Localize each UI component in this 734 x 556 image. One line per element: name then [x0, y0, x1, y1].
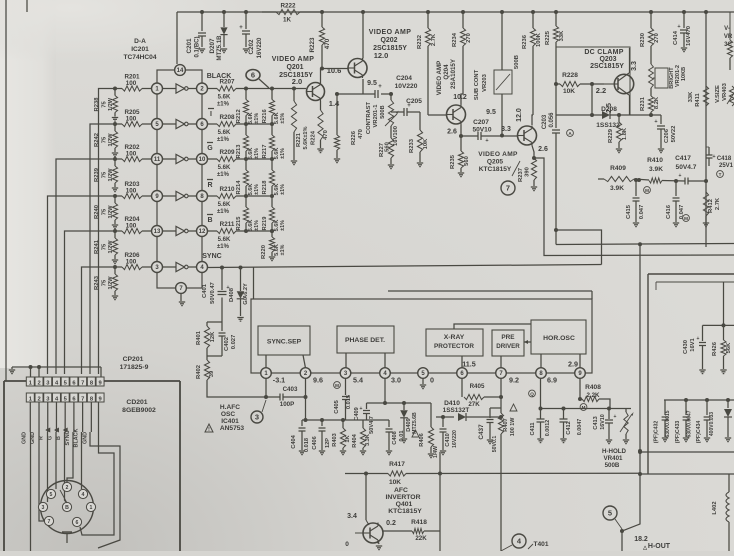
capacitor C434 [696, 400, 715, 443]
svg-text:L402: L402 [712, 501, 718, 514]
callout 7 [501, 181, 515, 195]
IC IC401 box [251, 299, 592, 373]
svg-text:100K: 100K [536, 32, 542, 47]
node junction r [704, 179, 708, 183]
svg-text:6.9: 6.9 [547, 376, 557, 385]
svg-text:3: 3 [42, 505, 45, 511]
svg-text:10.2: 10.2 [453, 94, 467, 101]
svg-text:D408: D408 [229, 287, 235, 302]
wire CD201 pin1 lead [29, 402, 31, 432]
resistor R238 [94, 89, 118, 117]
svg-text:+: + [378, 84, 382, 90]
svg-text:171825-9: 171825-9 [120, 364, 149, 371]
resistor R203 [115, 181, 152, 199]
diode D right [724, 400, 732, 437]
svg-text:C413: C413 [593, 416, 599, 429]
svg-text:560: 560 [464, 156, 470, 166]
capacitor C408 [386, 420, 406, 450]
svg-text:±1%: ±1% [217, 209, 230, 215]
connector arrow [45, 428, 50, 433]
diode D208 [596, 106, 620, 129]
mark M410 [644, 187, 651, 194]
svg-text:56K: 56K [726, 342, 732, 353]
svg-text:INVERTOR: INVERTOR [386, 494, 421, 501]
svg-text:1/2W: 1/2W [108, 205, 114, 219]
svg-text:2.7K: 2.7K [431, 33, 437, 46]
CP201 pin 1 [26, 377, 34, 386]
svg-text:R411: R411 [695, 92, 701, 106]
label VIDEO AMP Q202 [369, 29, 412, 60]
svg-text:5.4: 5.4 [353, 376, 363, 385]
label 2.5 [606, 103, 613, 113]
wire pin4 drop [384, 379, 386, 404]
svg-text:±1%: ±1% [280, 184, 286, 195]
svg-text:9.6: 9.6 [313, 376, 323, 385]
svg-text:3.0: 3.0 [391, 376, 401, 385]
svg-text:VR: VR [724, 34, 733, 40]
svg-text:33K: 33K [559, 30, 565, 41]
ground [340, 451, 346, 455]
capacitor C433 [675, 400, 693, 443]
ground [112, 118, 118, 122]
svg-text:R219: R219 [262, 216, 268, 231]
svg-text:T401: T401 [533, 541, 548, 548]
label I-bar [208, 109, 214, 119]
svg-text:R230: R230 [640, 33, 646, 47]
resistor R403 [332, 418, 351, 450]
wire CD201 pin7 lead [82, 402, 84, 432]
svg-text:8.2K: 8.2K [654, 96, 660, 109]
svg-text:R418: R418 [411, 519, 427, 526]
svg-text:+: + [712, 154, 715, 160]
svg-text:500B: 500B [514, 55, 520, 69]
svg-text:3.3: 3.3 [631, 61, 638, 71]
label voltage 11.5 [462, 360, 476, 369]
wire CD201 pin6 lead [73, 402, 75, 432]
svg-text:5: 5 [608, 509, 612, 518]
capacitor C418 [706, 147, 734, 169]
svg-text:27K: 27K [468, 401, 480, 408]
svg-text:100: 100 [126, 116, 137, 123]
svg-text:GND: GND [21, 432, 27, 444]
svg-text:7: 7 [81, 380, 84, 386]
label voltage 2.9 [568, 360, 578, 369]
svg-text:±1%: ±1% [280, 113, 286, 124]
wire Q202 collector [361, 10, 365, 59]
svg-text:R232: R232 [417, 35, 423, 49]
inverter U1 row pin5-pin6 [163, 119, 197, 128]
resistor R406 [419, 403, 439, 458]
label voltage -3.1 [273, 376, 285, 385]
pin 11 [152, 154, 163, 165]
wire R417 row [345, 461, 640, 486]
CD201 pin 7 [79, 393, 87, 402]
DIN pin 4 [78, 489, 87, 498]
svg-text:100: 100 [126, 259, 137, 266]
DIN connector CD201 shell [41, 481, 94, 534]
svg-text:R221: R221 [296, 132, 302, 147]
svg-text:5.6K±1%: 5.6K±1% [303, 126, 309, 149]
svg-text:M: M [684, 216, 688, 221]
resistor R224 [311, 101, 330, 148]
svg-text:C402: C402 [224, 337, 230, 351]
resistor R243 [94, 267, 118, 295]
inverter U1 row pin13-pin12 [163, 226, 197, 235]
H-HOLD pot VR401 [602, 409, 634, 470]
svg-text:3.4: 3.4 [347, 513, 357, 520]
capacitor C410 [440, 417, 459, 450]
svg-text:SUB CONT: SUB CONT [474, 69, 480, 100]
svg-text:2: 2 [66, 485, 69, 491]
resistor R205 [115, 109, 152, 127]
svg-text:100P: 100P [280, 401, 294, 408]
svg-text:R214: R214 [236, 180, 242, 195]
CD201 pin 6 [70, 393, 78, 402]
svg-text:±1%: ±1% [217, 172, 230, 178]
pin 8 IC401 [536, 368, 547, 379]
svg-text:50V0.1: 50V0.1 [492, 436, 498, 453]
svg-text:R405: R405 [470, 383, 485, 390]
svg-text:50V4.7: 50V4.7 [369, 416, 375, 434]
svg-text:1SS132: 1SS132 [596, 122, 620, 129]
label CD201 [122, 399, 156, 414]
svg-text:C412: C412 [566, 421, 572, 434]
resistor R222 [262, 3, 320, 24]
CD201 pin 3 [44, 393, 52, 402]
svg-text:C417: C417 [675, 155, 691, 162]
resistor R412 [703, 192, 721, 222]
svg-text:R208: R208 [219, 114, 235, 121]
resistor R220 [261, 229, 286, 259]
pin 3 IC401 [340, 368, 351, 379]
capacitor C204 [375, 75, 418, 98]
svg-text:630V0.0015: 630V0.0015 [665, 410, 671, 437]
label R407 [503, 404, 517, 436]
svg-text:C409: C409 [354, 407, 360, 420]
resistor R232 [417, 10, 437, 115]
svg-text:2SA1015Y: 2SA1015Y [450, 58, 457, 89]
wire right lower line [638, 450, 734, 454]
svg-text:VR403: VR403 [722, 82, 728, 101]
svg-text:D207: D207 [209, 38, 216, 54]
svg-text:G/A6.2Y: G/A6.2Y [243, 283, 249, 305]
capacitor C413 [593, 409, 617, 440]
ground [487, 440, 493, 444]
svg-text:H.AFC: H.AFC [220, 404, 240, 411]
svg-text:G: G [47, 436, 53, 440]
diode D410 [443, 400, 501, 421]
svg-text:100: 100 [126, 80, 137, 87]
wire matrix row [244, 87, 274, 91]
label R-bar [207, 180, 213, 190]
ground [725, 438, 731, 442]
wire subblock stubs [266, 353, 580, 368]
label B-bar [207, 215, 213, 225]
ground [9, 370, 15, 374]
capacitor C415 [626, 178, 645, 222]
wire din route 7 [81, 432, 83, 489]
svg-text:0.2: 0.2 [386, 520, 396, 527]
svg-text:VIDEO AMP: VIDEO AMP [478, 151, 518, 158]
diode D408 [229, 266, 249, 317]
resistor R217 [262, 124, 286, 159]
ground [662, 438, 668, 442]
svg-text:(PF)C434: (PF)C434 [696, 421, 702, 444]
wire din route 8 [90, 432, 120, 548]
resistor R230 [640, 10, 660, 64]
svg-text:Q201: Q201 [286, 64, 303, 71]
svg-text:±1%: ±1% [217, 102, 230, 108]
svg-text:V-: V- [724, 26, 730, 32]
wire c410 drop [439, 452, 441, 551]
wire matrix row [244, 157, 274, 161]
DIN bottom stub [66, 534, 68, 543]
DIN pin B [62, 502, 71, 511]
resistor R228 [554, 72, 604, 95]
resistor R221 [291, 89, 309, 161]
connector arrow [54, 428, 59, 433]
svg-text:7: 7 [506, 184, 510, 193]
DIN pin 1 [86, 502, 95, 511]
svg-text:75: 75 [102, 171, 108, 178]
svg-text:6: 6 [76, 520, 79, 526]
label voltage 5.4 [353, 376, 363, 385]
svg-text:R226: R226 [351, 130, 357, 145]
resistor R233 [409, 112, 429, 162]
wire Q204 base [428, 114, 447, 116]
svg-text:R220: R220 [261, 245, 267, 259]
capacitor C437 [478, 408, 501, 452]
capacitor C202 [239, 10, 263, 58]
node junction [113, 265, 117, 269]
contrast pot VR201-1 [366, 92, 399, 138]
ground [319, 451, 325, 455]
svg-text:11.5: 11.5 [462, 360, 476, 369]
label 2.6 q204 [447, 129, 457, 136]
ground [376, 541, 382, 550]
svg-text:±1%: ±1% [254, 113, 260, 124]
capacitor C205 [391, 98, 422, 146]
svg-text:75: 75 [102, 136, 108, 143]
wire row to connector bus [90, 124, 115, 374]
svg-text:13: 13 [154, 229, 161, 235]
inverter U1 row pin9-pin8 [163, 191, 197, 200]
inductor L402 [712, 474, 729, 551]
svg-text:Q: Q [530, 391, 534, 396]
ground [616, 149, 622, 153]
svg-text:IC401: IC401 [221, 418, 239, 425]
wire d410 line [436, 415, 454, 419]
resistor edge top [727, 12, 732, 70]
ground [673, 223, 679, 227]
resistor R223 [309, 10, 331, 68]
wire din route 2 [39, 432, 44, 521]
wire pin7 drop [498, 379, 503, 552]
CD201 pin 4 [52, 393, 60, 402]
svg-text:±1%: ±1% [217, 244, 230, 250]
wire base drop [591, 84, 593, 115]
svg-text:PHASE DET.: PHASE DET. [345, 337, 385, 344]
svg-text:1K: 1K [283, 17, 292, 24]
svg-text:R403: R403 [332, 433, 338, 446]
svg-text:25V1: 25V1 [719, 163, 734, 169]
V.SIZE pot VR403 [715, 82, 734, 106]
resistor R234 [452, 10, 472, 105]
svg-text:C406: C406 [312, 436, 318, 449]
callout 3 [251, 400, 266, 423]
svg-text:C203: C203 [542, 114, 548, 129]
resistor R231 [640, 88, 660, 115]
svg-text:75: 75 [102, 243, 108, 250]
svg-text:D-A: D-A [134, 38, 146, 45]
pin 9 IC401 [575, 368, 586, 379]
label VIDEO AMP Q201 [272, 56, 315, 79]
wire sync riser [554, 228, 602, 265]
label 9.5 left [367, 80, 377, 87]
svg-text:16V220: 16V220 [257, 37, 263, 58]
svg-text:±1%: ±1% [280, 148, 286, 159]
label 9.5 r [486, 109, 496, 116]
svg-text:M: M [335, 383, 339, 388]
svg-text:5.6K: 5.6K [218, 130, 231, 136]
mark M416 [683, 215, 690, 222]
svg-text:DC CLAMP: DC CLAMP [584, 49, 623, 56]
svg-text:1/2W: 1/2W [108, 97, 114, 111]
svg-text:Q203: Q203 [599, 56, 616, 63]
svg-text:1/4W: 1/4W [433, 446, 439, 458]
svg-text:R216: R216 [262, 109, 268, 124]
svg-text:(PF)C432: (PF)C432 [654, 421, 660, 444]
svg-text:KTC1815Y: KTC1815Y [479, 166, 512, 173]
wire CD201 pin8 lead [90, 402, 92, 432]
svg-text:0.027: 0.027 [231, 335, 237, 350]
CP201 pin 4 [52, 377, 60, 386]
resistor R410 [647, 157, 685, 183]
wire din route 9 [80, 402, 114, 535]
inverter U1 row pin3-pin4 [163, 262, 197, 271]
svg-text:470: 470 [324, 38, 331, 49]
resistor R213 [236, 124, 260, 159]
label IC401 [220, 404, 245, 432]
resistor R209 [208, 149, 247, 178]
wire right rail drop [704, 10, 708, 247]
svg-text:0.047: 0.047 [639, 205, 645, 220]
svg-text:PROTECTOR: PROTECTOR [434, 343, 474, 350]
capacitor C412 [560, 409, 584, 439]
wire CD201 pin4 lead [55, 402, 57, 432]
svg-text:5.6K: 5.6K [218, 237, 231, 243]
label DC CLAMP [584, 49, 624, 70]
svg-text:BLACK: BLACK [207, 73, 232, 80]
wire matrix row [244, 122, 274, 126]
wire row1 to Q201 base [272, 87, 306, 91]
block PRE DRIVER [492, 330, 524, 356]
svg-text:2.9: 2.9 [568, 360, 578, 369]
svg-text:0.056: 0.056 [549, 112, 555, 128]
svg-text:Q401: Q401 [396, 501, 413, 508]
svg-text:±1%: ±1% [254, 148, 260, 159]
svg-text:R236: R236 [522, 34, 528, 49]
svg-text:10K: 10K [389, 479, 401, 486]
svg-text:R212: R212 [236, 109, 242, 123]
svg-text:C437: C437 [478, 424, 485, 440]
wire video out line [533, 158, 734, 256]
svg-text:Q205: Q205 [487, 159, 503, 166]
svg-text:5.6K: 5.6K [218, 165, 231, 171]
CD201 pin 9 [96, 393, 104, 402]
svg-text:X-RAY: X-RAY [444, 334, 465, 341]
label R411 33K [688, 91, 694, 102]
ground [269, 257, 275, 261]
transistor Q204 [447, 105, 466, 125]
resistor R207 [208, 79, 247, 108]
label 3.3 q203 [631, 61, 638, 71]
callout 6 [246, 70, 269, 89]
svg-text:5: 5 [50, 492, 53, 498]
CP201 pin 9 [96, 377, 104, 386]
ground [386, 451, 392, 455]
ground [683, 438, 689, 442]
wire CD201 pin5 lead [64, 402, 66, 432]
capacitor C405 [334, 379, 352, 421]
label B [56, 436, 62, 440]
ground [237, 318, 243, 322]
wire R426 riser [723, 282, 725, 325]
svg-text:R210: R210 [219, 186, 235, 193]
svg-text:R213: R213 [236, 144, 242, 159]
label VIDEO AMP Q204 [436, 58, 457, 95]
svg-text:R412: R412 [708, 199, 714, 213]
ground [221, 49, 227, 53]
svg-text:75: 75 [102, 101, 108, 108]
wire row to connector bus [65, 231, 116, 374]
svg-text:VIDEO AMP: VIDEO AMP [436, 61, 443, 96]
IC IC201 box [157, 70, 202, 288]
mark A203 [567, 130, 574, 137]
wire row to connector bus [82, 267, 116, 374]
svg-text:50V0.47: 50V0.47 [210, 282, 216, 304]
ground [633, 223, 639, 227]
svg-text:VIDEO AMP: VIDEO AMP [272, 56, 315, 63]
capacitor C414 [673, 10, 692, 47]
ground [623, 440, 629, 444]
svg-text:C205: C205 [406, 98, 422, 105]
svg-text:12K: 12K [210, 331, 216, 342]
right section box [648, 274, 734, 474]
label GND [21, 432, 27, 444]
capacitor C417 [675, 155, 706, 185]
svg-text:10KB: 10KB [681, 67, 687, 81]
CP201 pin 3 [44, 377, 52, 386]
resistor R404 [352, 420, 371, 450]
svg-text:C415: C415 [626, 204, 632, 219]
label voltage 0 [430, 376, 434, 385]
pin 7 [176, 283, 187, 294]
svg-text:R231: R231 [640, 96, 646, 111]
ground [699, 370, 705, 374]
pin 14 [175, 65, 186, 76]
inverter U1 row pin11-pin10 [163, 154, 197, 163]
svg-text:9.2: 9.2 [509, 376, 519, 385]
svg-text:100: 100 [126, 223, 137, 230]
svg-text:16V220: 16V220 [452, 430, 458, 448]
ground [291, 161, 297, 165]
svg-text:9.5: 9.5 [486, 109, 496, 116]
svg-text:2SC1815Y: 2SC1815Y [590, 63, 624, 70]
svg-text:+: + [697, 336, 700, 342]
node junction [113, 194, 117, 198]
wire long bottom right [640, 473, 734, 475]
